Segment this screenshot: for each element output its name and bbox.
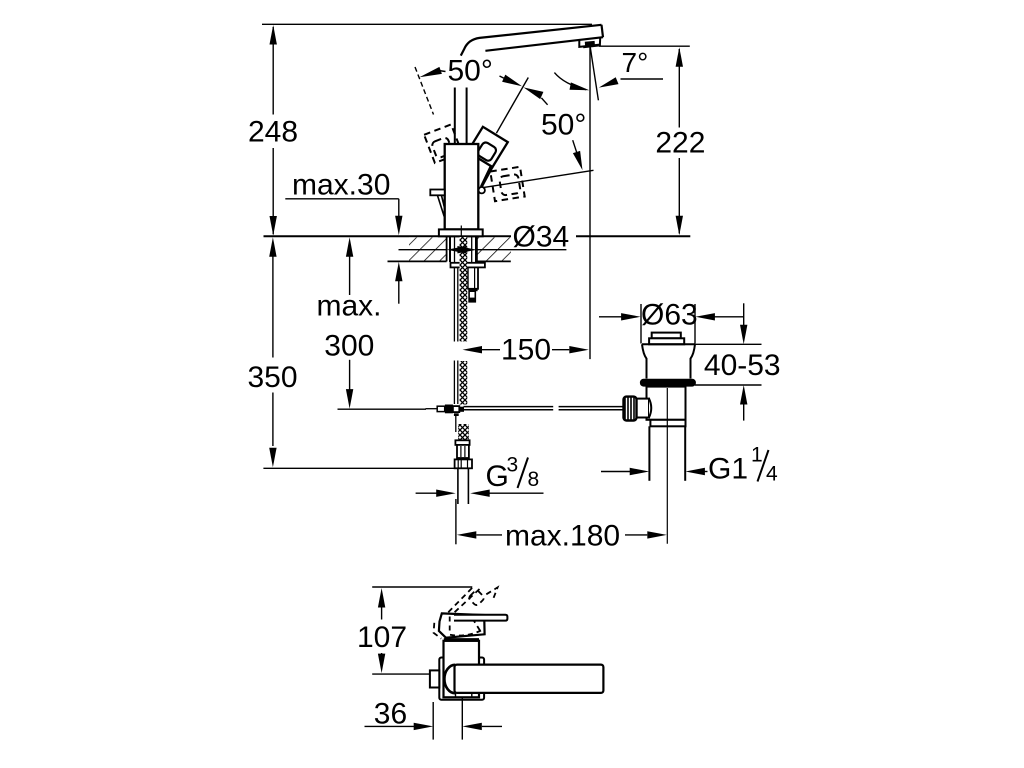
- label 50 deg (left): [448, 55, 493, 88]
- svg-text:3: 3: [507, 454, 519, 477]
- handle pivot: [479, 187, 485, 193]
- threaded shank inside deck hole: [450, 237, 476, 262]
- plan: base escutcheon plate: [439, 658, 484, 700]
- plan: faucet body: [444, 641, 480, 698]
- svg-text:G: G: [486, 460, 509, 493]
- drain collar: [650, 420, 685, 427]
- countertop hatched slab: [388, 236, 512, 261]
- aerator / mousseur: [579, 38, 600, 48]
- plan: spout attachment half-disc: [444, 665, 455, 693]
- 350 bottom extension line: [263, 467, 454, 469]
- svg-text:7°: 7°: [622, 47, 649, 78]
- label max.180: [505, 520, 620, 553]
- dimension 107: [378, 588, 385, 673]
- drain flange (trumpet): [642, 344, 695, 378]
- handle lever arm (behind body right edge): [477, 154, 497, 196]
- dimension 150: [463, 346, 589, 353]
- dimension 40-53: [695, 303, 762, 420]
- knurled lever knob: [624, 397, 637, 421]
- dimension G3/8: [416, 490, 544, 497]
- svg-text:36: 36: [374, 697, 407, 730]
- tip-to-tip arrows on solid axis (shared 50-deg terminators): [500, 75, 548, 105]
- dimension max.180: [456, 499, 667, 544]
- dimension Ø63: [599, 304, 744, 344]
- pop-up pull rod (vertical): [454, 267, 457, 404]
- svg-text:4: 4: [766, 463, 778, 486]
- label 7 deg: [622, 47, 649, 78]
- handle position dashed cube (lower right): [490, 167, 524, 201]
- dimension 222 vertical line: [676, 47, 683, 235]
- dimension 350 vertical line: [269, 237, 276, 467]
- label 150: [501, 334, 551, 367]
- spout outlet vertical extension line: [589, 47, 591, 359]
- drain valve body: [647, 387, 686, 420]
- svg-text:150: 150: [501, 334, 551, 367]
- 7-degree tilted reference line: [590, 47, 598, 100]
- plan: handle base dark band: [444, 638, 479, 642]
- handle cube (solid, tilted): [468, 127, 508, 167]
- dimension max.300 vertical line: [346, 237, 353, 408]
- label 36: [374, 697, 407, 730]
- svg-text:107: 107: [357, 621, 407, 654]
- label 40-53: [704, 349, 781, 382]
- plan: handle cube outline: [439, 613, 485, 637]
- temperature stop tab on body left: [430, 190, 445, 217]
- svg-text:350: 350: [247, 361, 297, 394]
- flexible braided supply hose (upper segment): [458, 237, 469, 446]
- shank lower section with nut: [468, 267, 478, 301]
- right 50-degree leader and arrow to lower dashed axis: [573, 140, 583, 170]
- label Ø34: [513, 221, 570, 254]
- countertop deck line: [264, 235, 691, 237]
- spout: [461, 25, 603, 56]
- label 222: [655, 127, 705, 160]
- svg-text:Ø63: Ø63: [641, 299, 698, 332]
- drain tailpipe G1 1/4: [649, 388, 685, 544]
- body centreline tick: [460, 226, 462, 241]
- 222 top extension line (spout outlet level): [599, 45, 690, 47]
- label max.30: [292, 169, 390, 202]
- left dashed handle axis line: [415, 67, 434, 115]
- plan top extension line: [372, 586, 472, 588]
- 7-degree arc arrow (left side): [554, 73, 589, 91]
- svg-text:222: 222: [655, 127, 705, 160]
- svg-text:50°: 50°: [448, 55, 493, 88]
- svg-text:max.: max.: [316, 289, 381, 322]
- rubber seal ring: [640, 379, 696, 387]
- plan: handle inner dashed details: [450, 617, 482, 636]
- dimension Ø34 arrows (crossing inside hole): [399, 246, 567, 253]
- plan: handle lever bar: [454, 615, 507, 621]
- label 248: [248, 116, 298, 149]
- plan: dashed rotated lever: [434, 587, 498, 638]
- escutcheon base plate: [439, 229, 483, 236]
- hose end fitting and G3/8 nut: [455, 440, 472, 504]
- svg-text:8: 8: [528, 468, 540, 491]
- svg-text:40-53: 40-53: [704, 349, 781, 382]
- solid handle axis line: [496, 78, 528, 134]
- max.30 leader line with down arrow to deck: [285, 199, 402, 304]
- faucet body: [445, 144, 479, 229]
- label max. 300 (two lines): [316, 289, 381, 362]
- svg-text:50°: 50°: [541, 109, 586, 142]
- top extension line (overall height reference): [262, 23, 592, 25]
- label 50 deg (right): [541, 109, 586, 142]
- dimension 248 vertical line: [270, 25, 277, 236]
- handle position dashed cube (left, tilted): [424, 124, 462, 163]
- svg-text:max.30: max.30: [292, 169, 390, 202]
- pop-up horizontal rod: [464, 407, 623, 410]
- plan: small detail lines under body: [456, 693, 472, 697]
- svg-text:Ø34: Ø34: [513, 221, 570, 254]
- pop-up lever connector: [637, 399, 652, 418]
- plan: spout bar: [455, 665, 604, 693]
- svg-text:300: 300: [324, 330, 374, 363]
- label G1 1/4: [708, 444, 778, 486]
- max.300 bottom extension line (at pop-up rod level): [338, 408, 427, 410]
- label Ø63: [641, 299, 698, 332]
- handle lever stem (vertical position): [455, 88, 467, 145]
- drain plug cap: [649, 333, 684, 345]
- 7-degree leader line with arrow: [599, 77, 663, 87]
- label 107: [357, 621, 407, 654]
- left 50-degree arrow on dashed axis: [419, 67, 445, 77]
- svg-text:248: 248: [248, 116, 298, 149]
- svg-text:1: 1: [751, 444, 763, 467]
- plan bottom extension line: [372, 673, 433, 675]
- dimension G1 1/4: [601, 468, 708, 475]
- lower-right dashed handle axis line: [483, 170, 594, 187]
- pop-up rod coupler: [426, 405, 465, 433]
- mounting washer below deck: [451, 263, 485, 268]
- label G 3/8: [486, 454, 540, 494]
- label 350: [247, 361, 297, 394]
- dimension 36: [365, 698, 503, 740]
- plan: temperature tab: [430, 670, 439, 687]
- svg-text:G1: G1: [708, 453, 748, 486]
- svg-text:max.180: max.180: [505, 520, 620, 553]
